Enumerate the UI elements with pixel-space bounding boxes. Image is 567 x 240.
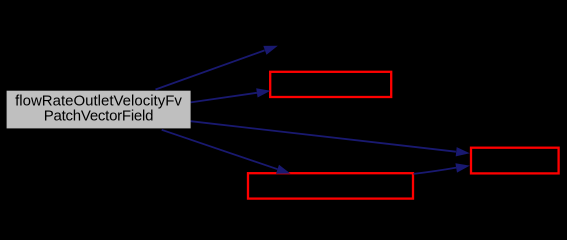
svg-text:PatchVectorField: PatchVectorField <box>44 108 153 125</box>
